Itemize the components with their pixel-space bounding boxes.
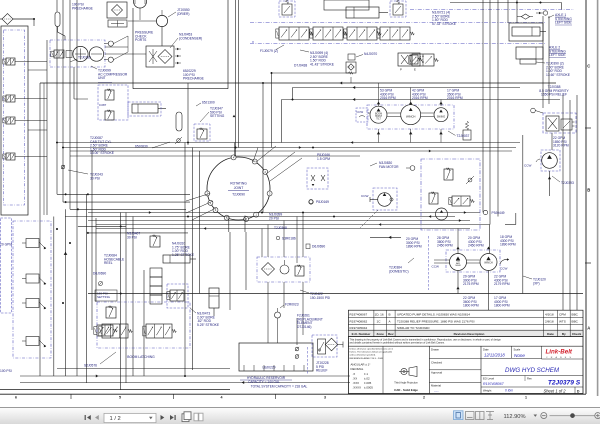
pump circle BOOM HOIST TILT <box>370 106 387 123</box>
toolbar first page btn <box>85 415 91 420</box>
svg-text:JOINT: JOINT <box>234 186 244 190</box>
toolbar view icon 2 <box>466 412 475 420</box>
label 0.087 <box>99 103 107 107</box>
label HYDRAULIC RESERVOIR <box>240 376 292 384</box>
svg-text:R197408067: R197408067 <box>483 382 505 386</box>
svg-text:LEFT SIDE: LEFT SIDE <box>549 53 566 57</box>
svg-text:EO Level: EO Level <box>483 376 494 380</box>
label Date cell <box>483 347 505 357</box>
wire compressor drop <box>74 67 88 99</box>
svg-text:Date: Date <box>483 347 489 351</box>
zone tick 5-4 <box>173 394 175 399</box>
svg-text:Link-Belt: Link-Belt <box>546 349 573 356</box>
rev row3 <box>350 326 431 330</box>
pump circle WINCH <box>401 105 421 125</box>
check valve T2J0243 <box>61 165 65 169</box>
reservoir hatch <box>244 365 304 371</box>
svg-text:4: 4 <box>221 396 223 400</box>
wire bus y228 <box>96 228 470 230</box>
svg-text:Date: Date <box>547 332 554 336</box>
label A B pins <box>422 54 424 64</box>
svg-text:2016 RPM: 2016 RPM <box>380 96 396 100</box>
filter diamond center <box>262 263 275 276</box>
wire bottom left h1 <box>20 375 350 378</box>
port circle P8J0169 <box>309 200 313 204</box>
wire left bus x47 <box>46 40 48 215</box>
svg-text:P9J0449: P9J0449 <box>492 211 505 215</box>
wire priority drop <box>551 133 553 150</box>
label 65J0229 100 PSI PRECHARGE <box>183 69 205 81</box>
toolbar zoom plus <box>595 413 600 419</box>
wire bus y156 <box>70 155 360 157</box>
svg-text:0.087: 0.087 <box>99 103 107 107</box>
svg-text:T2J0389: T2J0389 <box>78 56 91 60</box>
svg-text:20 GPM: 20 GPM <box>0 243 12 247</box>
label T2J0347 500 PSI SETTING <box>200 107 225 123</box>
pump circle T2J0393 <box>542 153 558 169</box>
svg-text:13.60" STROKE: 13.60" STROKE <box>546 73 571 77</box>
cyl sym 4 <box>22 337 46 348</box>
priority x-valve <box>546 116 559 131</box>
svg-text:B: B <box>587 188 590 193</box>
svg-text:4/3/18: 4/3/18 <box>545 313 554 317</box>
svg-text:S2J0576: S2J0576 <box>84 364 97 368</box>
left lower dash box A <box>1 218 12 313</box>
gauge circle center <box>280 260 289 274</box>
label 65J1300 <box>196 101 215 107</box>
label N4J0310 <box>172 242 195 257</box>
svg-text:±.0005: ±.0005 <box>364 385 373 389</box>
toolbar view icon 3 <box>476 412 485 420</box>
pump circle AC 2 <box>89 47 103 61</box>
svg-text:REFERENCE ASME Y14.5 - 2009: REFERENCE ASME Y14.5 - 2009 <box>350 357 384 360</box>
cab tilt dash box <box>98 85 128 120</box>
wire bus y151 <box>70 150 512 152</box>
rev header <box>352 332 582 336</box>
tolerance text <box>350 348 394 360</box>
logo Link-Belt <box>546 349 573 359</box>
svg-text:2450 RPM: 2450 RPM <box>468 244 484 248</box>
svg-text:Inches. The tolerances below: Inches. The tolerances below are applica… <box>350 351 393 354</box>
svg-text:R197408062: R197408062 <box>350 319 368 323</box>
dashdot top right <box>410 9 574 11</box>
valve 180psi 2 <box>94 325 118 336</box>
label T2J0243 30 PSI <box>68 170 103 180</box>
svg-text:.XX: .XX <box>353 377 358 381</box>
wire manifold y87 <box>293 86 521 89</box>
check port circle 1 <box>104 41 113 46</box>
svg-text:Drawn: Drawn <box>431 348 440 352</box>
zone number 6 <box>15 396 17 400</box>
motor circle top <box>134 0 147 8</box>
svg-text:30 PSI: 30 PSI <box>90 176 100 180</box>
svg-text:unless otherwise specified.: unless otherwise specified. <box>350 354 377 357</box>
wire vert x144 <box>143 270 145 376</box>
toolbar background <box>0 408 600 424</box>
svg-text:Approval: Approval <box>431 371 442 375</box>
svg-text:CPM: CPM <box>559 313 566 317</box>
wire vert x570 <box>569 100 571 310</box>
label Approval <box>431 371 442 375</box>
filter group diamond <box>325 338 343 351</box>
wire x199 vert <box>199 151 201 294</box>
wire bus y202 <box>63 201 190 203</box>
svg-text:3120 RPM: 3120 RPM <box>553 144 569 148</box>
label T2J0120 XP <box>523 276 546 285</box>
label CCW fan <box>361 194 368 198</box>
wire bus y209 <box>70 209 186 211</box>
left lower dash box B <box>13 221 51 358</box>
svg-text:C R A N E S: C R A N E S <box>546 356 572 359</box>
compressor unit dash box <box>50 40 105 67</box>
wire precharge drop <box>187 83 189 145</box>
toolbar next page btn <box>161 415 165 420</box>
svg-text:150-1500 PSI: 150-1500 PSI <box>310 296 330 300</box>
wire bottom left h0 <box>57 368 230 370</box>
label P8J0169 top <box>309 200 329 205</box>
label 100 PSI PRECHARGE <box>72 3 94 11</box>
wire bus y293 <box>88 293 583 295</box>
svg-text:CCW: CCW <box>500 267 507 271</box>
svg-text:(DRIER): (DRIER) <box>177 12 189 16</box>
port circle axle1 <box>536 11 548 15</box>
spring relief right top <box>463 121 471 140</box>
toolbar page box <box>104 413 156 422</box>
toolbar zoom minus <box>541 413 547 419</box>
wire pumps2 feeds <box>456 229 490 254</box>
svg-text:T2J0037: T2J0037 <box>457 134 470 138</box>
toolbar prev page btn <box>95 415 99 420</box>
wire vert x120 <box>120 213 122 390</box>
wire left bus x84 <box>85 194 87 383</box>
main pumps dash box <box>367 105 454 129</box>
svg-text:5: 5 <box>119 396 121 400</box>
wire bus y142 <box>57 142 520 144</box>
svg-text:DECIMAL: DECIMAL <box>351 367 364 371</box>
label 53 GPM <box>380 89 396 101</box>
svg-text:(DOMESTIC): (DOMESTIC) <box>389 269 409 273</box>
svg-text:E.O. Number: E.O. Number <box>352 332 372 336</box>
label N3J0407 30 PSI <box>127 232 140 240</box>
label 28 GPM <box>437 236 453 248</box>
valve 180psi 1 <box>106 306 116 318</box>
wire drier plumbing <box>128 10 162 46</box>
wire manifold y83 <box>40 82 556 85</box>
zone number 3 <box>324 396 326 400</box>
svg-text:Material: Material <box>431 384 441 388</box>
svg-text:CCW: CCW <box>524 164 531 168</box>
svg-text:1 / 2: 1 / 2 <box>110 416 121 422</box>
svg-text:CCW: CCW <box>361 194 368 198</box>
spring relief A <box>282 0 292 15</box>
valve bank dashdot line top <box>250 22 545 24</box>
svg-text:2175 RPM: 2175 RPM <box>463 282 479 286</box>
x-valve D7J0438 <box>398 53 422 72</box>
JTJ0228 valve <box>318 339 326 354</box>
svg-text:Unless otherwise specified dim: Unless otherwise specified dimensions ar… <box>350 348 394 351</box>
label AXLE 1 STEERING LEFT SIDE <box>548 13 572 25</box>
wire vert x281 <box>281 100 283 143</box>
svg-text:0 lbm: 0 lbm <box>505 389 513 393</box>
relief N in block 2 <box>429 192 438 204</box>
zone number 1 <box>525 396 527 400</box>
svg-text:D: D <box>577 389 580 393</box>
label T2J0368 small <box>274 226 287 230</box>
receiver fan box <box>108 20 127 27</box>
label N4J0070 <box>348 52 377 60</box>
label F2J0261 bottom <box>297 314 323 329</box>
label DWG HYD SCHEM <box>505 367 560 374</box>
wire pump drop x458 <box>456 271 459 294</box>
svg-text:Zone: Zone <box>377 332 385 336</box>
priority port circle <box>531 108 543 113</box>
svg-text:CCW: CCW <box>432 265 439 269</box>
wire vert x563 <box>562 95 564 310</box>
rotating joint port4 stem <box>235 143 259 163</box>
condenser fan sym <box>149 49 157 64</box>
wire bus y224 <box>96 213 516 253</box>
relief valve N3J0407 <box>150 235 160 247</box>
wire bus y232 <box>87 232 188 234</box>
svg-text:SETTING: SETTING <box>97 295 111 299</box>
condenser diamond <box>158 50 172 64</box>
svg-text:ROTATING: ROTATING <box>230 181 247 185</box>
cylinder vertical N3J0473 <box>209 288 219 316</box>
reducer dash box <box>257 257 310 282</box>
label Scale cell <box>514 347 526 358</box>
label T2J0379 S <box>548 380 581 387</box>
label N3J0453 CONDENSER <box>170 33 202 49</box>
cylinder N4J0310 <box>163 255 196 263</box>
zone number 5 <box>119 396 121 400</box>
label JTJ0550 DRIER <box>168 8 190 17</box>
svg-text:Rev: Rev <box>527 376 532 380</box>
accumulator 65J0229 top <box>55 12 60 27</box>
label D7J0438 <box>294 64 307 68</box>
svg-text:2179 RPM: 2179 RPM <box>494 282 510 286</box>
pump shaft 2 <box>421 113 434 117</box>
svg-text:±.1: ±.1 <box>364 372 368 376</box>
svg-text:and details contained herein i: and details contained herein is prohibit… <box>350 342 445 345</box>
pump triangle feeds <box>377 83 443 106</box>
svg-text:2016 RPM: 2016 RPM <box>412 96 428 100</box>
title block copyright divider <box>348 345 583 347</box>
hose reel coils <box>150 268 162 304</box>
svg-text:REEL: REEL <box>104 261 113 265</box>
wire vert x508 <box>507 0 509 23</box>
fan port circle <box>406 166 415 171</box>
wire vert x498 <box>497 0 499 217</box>
label N3J0830 FAN MOTOR <box>370 161 399 169</box>
svg-text:Weight: Weight <box>483 388 492 392</box>
svg-text:1.5 GPM: 1.5 GPM <box>317 157 330 161</box>
svg-text:SIMILAR TO T2J0334D: SIMILAR TO T2J0334D <box>397 326 430 330</box>
svg-text:TILT: TILT <box>376 119 381 121</box>
pump shaft mid <box>467 260 481 263</box>
svg-text:3: 3 <box>324 396 326 400</box>
svg-text:None: None <box>514 353 525 358</box>
label T2J0087 CAB TILT CYL <box>90 136 115 155</box>
svg-text:WINCH: WINCH <box>406 115 415 119</box>
wire vert x490 <box>489 0 491 225</box>
svg-text:CAD - Solid Edge: CAD - Solid Edge <box>394 388 418 392</box>
svg-text:WTS: WTS <box>559 319 566 323</box>
svg-text:*: * <box>252 41 254 47</box>
svg-text:D6J0690: D6J0690 <box>93 272 106 276</box>
check 65J0830 <box>175 137 182 144</box>
zone tick C-B <box>585 127 591 129</box>
pump shaft 1 <box>387 113 401 117</box>
wire bus y147 <box>63 147 516 149</box>
wire vert x483 <box>482 0 484 213</box>
solenoid valve bank1 v2 <box>3 95 47 102</box>
label D6J0690 right <box>306 244 325 249</box>
wire vert x271 <box>271 73 273 148</box>
zone letter B <box>587 188 590 193</box>
svg-text:PRECHARGE: PRECHARGE <box>183 77 205 81</box>
wire vert x126 <box>125 213 127 384</box>
svg-text:FAN MOTOR: FAN MOTOR <box>379 165 399 169</box>
priority relief <box>561 119 575 130</box>
wire motor down <box>139 8 141 20</box>
wire vert x292 <box>292 88 294 101</box>
svg-text:-----: ----- <box>434 389 439 393</box>
svg-text:5.25" STROKE: 5.25" STROKE <box>197 323 220 327</box>
pumps2 dash box <box>446 250 500 272</box>
valve bank asterisk <box>252 41 254 47</box>
check valves reservoir <box>295 347 299 359</box>
label CCW T2J0393 <box>524 159 540 168</box>
label JTJ0228 relief <box>316 361 329 373</box>
svg-text:MGR: MGR <box>455 265 461 267</box>
label D6J0690 left <box>93 272 106 286</box>
pump dash box T2J0393 <box>541 150 560 171</box>
label N3J0099 4x <box>300 50 335 66</box>
svg-text:2/8/18: 2/8/18 <box>545 319 554 323</box>
label 29 GPM <box>463 275 479 287</box>
svg-text:Scale: Scale <box>514 347 521 351</box>
wire joint bottom drop <box>229 216 245 233</box>
label LBJ0229 <box>262 366 275 370</box>
svg-text:(XP): (XP) <box>533 281 540 285</box>
check port circle 2 <box>104 57 113 62</box>
svg-text:1D, 16: 1D, 16 <box>375 313 384 317</box>
label Sheet 1 of 2 <box>544 389 567 394</box>
sheet bottom border line <box>0 393 586 395</box>
JTJ0228 dash box <box>312 335 337 357</box>
wire vert x235 <box>235 0 237 156</box>
label P8J0166 1.5 GPM <box>317 153 330 161</box>
wire x192 vert <box>192 148 194 371</box>
svg-text:1890 RPM: 1890 RPM <box>406 245 422 249</box>
label 17 GPM <box>447 89 463 101</box>
wire manifold y99 <box>282 98 561 101</box>
solenoid valve in block <box>449 196 474 206</box>
svg-text:D7J0438: D7J0438 <box>294 64 307 68</box>
svg-text:BBC: BBC <box>572 313 579 317</box>
zone letter A <box>587 326 590 331</box>
wire drops to reducer <box>262 213 303 264</box>
reservoir outline <box>239 343 313 371</box>
label CCW pumps left <box>432 265 439 269</box>
svg-text:LBJ0229: LBJ0229 <box>262 366 275 370</box>
check diamond top right <box>517 14 533 19</box>
toolbar view icon 4 <box>486 412 494 420</box>
title block grid <box>383 346 583 393</box>
svg-text:65J1300: 65J1300 <box>202 101 215 105</box>
wire reducer to reservoir <box>268 282 303 345</box>
sheet bottom inner border <box>0 389 230 391</box>
svg-text:F2R0023: F2R0023 <box>285 303 299 307</box>
label 22 GPM 1850 PSI 3120 RPM <box>553 136 569 148</box>
svg-text:BBC: BBC <box>572 319 579 323</box>
fan motor dash box <box>373 188 397 210</box>
wire vert x577 <box>576 95 578 310</box>
svg-text:R197405042: R197405042 <box>350 326 368 330</box>
svg-text:65J0830: 65J0830 <box>135 145 148 149</box>
svg-text:P: P <box>400 68 402 72</box>
svg-text:6: 6 <box>15 396 17 400</box>
wire left bus x63 <box>62 0 64 202</box>
svg-text:BOOM LATCHING: BOOM LATCHING <box>127 355 155 359</box>
wire accumulator down <box>58 27 66 41</box>
label N3J0473 <box>190 308 220 327</box>
svg-text:13.00" STROKE: 13.00" STROKE <box>90 151 115 155</box>
toolbar zoom text <box>504 414 526 420</box>
label T2J0389 <box>70 56 91 63</box>
wire bus y212 <box>88 212 480 214</box>
pump circle FAN <box>450 254 467 271</box>
wire vert x238 <box>233 0 239 148</box>
copyright text <box>350 338 502 344</box>
relief valve cab 1 <box>105 89 114 100</box>
zone tick 6-5 <box>70 394 72 399</box>
latch valve inner <box>167 290 184 301</box>
label TOTAL SYSTEM CAPACITY <box>251 385 308 389</box>
svg-text:B: B <box>389 313 391 317</box>
svg-text:1800 RPM: 1800 RPM <box>463 304 479 308</box>
condenser out arrows <box>175 48 181 64</box>
zone letter C <box>587 64 590 69</box>
svg-text:T2J0368: T2J0368 <box>274 226 287 230</box>
compressor solenoid valve <box>51 50 64 58</box>
svg-text:.XXXX: .XXXX <box>353 385 362 389</box>
compressor clutch box <box>66 51 72 58</box>
svg-text:F1J0079 (Z): F1J0079 (Z) <box>260 49 278 53</box>
relief A dashbox <box>279 1 295 17</box>
wire vert x549 top <box>548 16 550 104</box>
svg-text:P8J0169: P8J0169 <box>316 200 329 204</box>
zone number 2 <box>423 396 425 400</box>
relief B dashbox <box>390 1 406 17</box>
svg-text:UNIT: UNIT <box>98 76 106 80</box>
svg-text:UPDATED PUMP DETAILS. N3J0830: UPDATED PUMP DETAILS. N3J0830 WAS N3J081… <box>397 313 470 317</box>
check port leaders <box>113 36 128 60</box>
label Third Angle Projection <box>394 382 418 385</box>
svg-text:2450 RPM: 2450 RPM <box>437 244 453 248</box>
valve T2J0347 <box>194 124 210 141</box>
condenser box <box>146 46 174 67</box>
svg-text:±.005: ±.005 <box>364 381 372 385</box>
wire bottom left h2 <box>20 381 350 384</box>
label ROTATING JOINT T2J0090 <box>228 181 249 196</box>
label F1J0079 Z <box>260 45 284 53</box>
cab tilt cylinder <box>128 102 166 116</box>
filter F1 top-left <box>0 14 34 25</box>
wire bus y220 <box>88 220 470 222</box>
priority valve box <box>543 113 576 133</box>
svg-text:RELIEF: RELIEF <box>316 369 328 373</box>
